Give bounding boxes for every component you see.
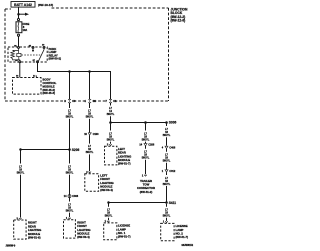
- wire label L7 18 BK/YL: [86, 110, 94, 119]
- license lamp no.1 dashed box: [104, 223, 117, 240]
- body control module dashed box: [13, 78, 42, 95]
- battery feed callout box BATT A142: [11, 2, 35, 8]
- wire label L7 18 BK/YL: [163, 209, 171, 218]
- svg-text:J988W-9: J988W-9: [6, 244, 16, 247]
- relay coil: [11, 48, 20, 60]
- junction block dashed outline: [5, 8, 169, 101]
- junction block label: [171, 8, 188, 23]
- svg-text:BK/YL: BK/YL: [66, 171, 74, 174]
- wire: [89, 154, 91, 171]
- BCM pin stub: [36, 75, 38, 77]
- wire label L7 18 BK/YL: [66, 110, 74, 119]
- wire A below JB: [69, 103, 71, 108]
- svg-text:(8W-10-15): (8W-10-15): [38, 3, 53, 7]
- connector C2 at junction block: [89, 99, 92, 103]
- wire: [69, 119, 71, 149]
- wire label L7 18 BK/YL: [142, 151, 150, 160]
- svg-text:S306: S306: [169, 121, 177, 125]
- wire: [110, 116, 112, 122]
- park lamp relay dashed box: [8, 47, 47, 62]
- svg-text:(8W-45-3): (8W-45-3): [43, 91, 56, 95]
- svg-text:BK/YL: BK/YL: [86, 151, 94, 154]
- svg-text:C208: C208: [148, 144, 154, 147]
- wire label L7 18 BK/YL: [66, 165, 74, 174]
- wire B drop from bus: [89, 72, 91, 100]
- svg-text:BK/YL: BK/YL: [107, 113, 115, 116]
- svg-text:(8W-12-8): (8W-12-8): [171, 18, 186, 22]
- wire: [89, 135, 91, 143]
- connector C6 at junction block: [68, 99, 71, 103]
- wire right branch to license lamps: [166, 124, 168, 126]
- relay terminals: [18, 46, 20, 48]
- wire A continues to right front module: [69, 151, 71, 164]
- svg-text:BK/YL: BK/YL: [107, 138, 115, 141]
- svg-text:BK/YL: BK/YL: [163, 160, 171, 163]
- svg-text:C100: C100: [93, 133, 99, 136]
- svg-text:(8W-50-2): (8W-50-2): [49, 57, 62, 61]
- svg-text:BK/YL: BK/YL: [142, 157, 150, 160]
- relay armature link (dashed): [21, 54, 40, 56]
- wire: [166, 137, 168, 146]
- wire: [20, 175, 22, 218]
- wire label L7 18 BK/YL: [105, 209, 113, 218]
- wire to license lamp no.1: [108, 203, 110, 207]
- svg-text:BK/YL: BK/YL: [17, 171, 25, 174]
- svg-text:C408: C408: [169, 146, 175, 149]
- in-line connector C408: [165, 146, 168, 148]
- wire label L7 18 BK/YL: [163, 128, 171, 137]
- wire: [89, 103, 91, 108]
- wire: [69, 213, 71, 218]
- wire: [110, 142, 112, 144]
- wire C below C1: [110, 103, 112, 106]
- node splice on bus B: [88, 70, 91, 73]
- fuse F8 10A: [16, 19, 30, 37]
- relay label: [49, 47, 62, 61]
- wire: [166, 172, 168, 175]
- wire A drop from bus: [69, 72, 71, 100]
- wire to trailer tow connector: [145, 124, 147, 131]
- relay switch: [39, 48, 44, 61]
- wire: [108, 218, 110, 221]
- license lamp no.2 dashed box: [161, 223, 174, 240]
- splice S306: [109, 121, 112, 124]
- svg-text:C312: C312: [169, 170, 175, 173]
- in-line connector C312: [165, 170, 168, 172]
- svg-text:(8W-51-7): (8W-51-7): [118, 162, 131, 166]
- svg-text:BK/YL: BK/YL: [66, 209, 74, 212]
- node splice dot on feed: [17, 13, 20, 16]
- left rear lighting module dashed box: [105, 146, 117, 165]
- svg-text:(8W-51-7): (8W-51-7): [176, 235, 189, 239]
- BCM pin labels: [16, 75, 36, 78]
- svg-text:96JW8152: 96JW8152: [182, 244, 194, 247]
- svg-text:BK/YL: BK/YL: [163, 183, 171, 186]
- right rear lighting module dashed box: [14, 220, 26, 239]
- wire label L7 18 BK/YL: [107, 132, 115, 141]
- svg-text:BK/YL: BK/YL: [66, 116, 74, 119]
- relay resistor box: [17, 53, 21, 56]
- wire: [145, 146, 147, 149]
- arrow to other circuits: [19, 13, 26, 15]
- svg-text:BATT A142: BATT A142: [14, 3, 32, 7]
- wire to license lamp no.2: [166, 204, 168, 207]
- wire label L7 18 BK/YL: [107, 107, 115, 116]
- splice S206: [68, 148, 71, 151]
- wire: [145, 142, 147, 144]
- wire label L7 18 BK/YL: [66, 203, 74, 212]
- wire label L7 18 BK/YL: [163, 154, 171, 163]
- in-line connector C208: [144, 144, 147, 146]
- svg-text:BK/YL: BK/YL: [163, 134, 171, 137]
- right front lighting module dashed box: [64, 220, 76, 238]
- in-line connector C308: [68, 195, 71, 198]
- wire: [89, 119, 91, 133]
- svg-text:10A: 10A: [23, 29, 28, 32]
- BCM label: [43, 78, 57, 96]
- svg-text:S411: S411: [169, 201, 176, 205]
- wire to left rear lighting module: [110, 124, 112, 131]
- svg-text:(8W-50-4): (8W-50-4): [100, 188, 113, 192]
- svg-text:BK/YL: BK/YL: [105, 215, 113, 218]
- wire label L7 18 BK/YL: [163, 177, 171, 186]
- wire label L7 18 BK/YL: [17, 165, 25, 174]
- relay coil node: [32, 48, 34, 50]
- wire to right rear lighting module: [20, 150, 22, 164]
- node splice on bus A: [68, 70, 71, 73]
- svg-text:(8W-50-4): (8W-50-4): [77, 235, 90, 239]
- relay pin labels top: [14, 44, 45, 62]
- wire: [166, 163, 168, 170]
- left front lighting module dashed box: [85, 174, 99, 192]
- connector C1 at junction block: [109, 99, 112, 103]
- svg-text:S206: S206: [72, 148, 80, 152]
- wire relay 87 output bus: [38, 63, 111, 99]
- splice S411: [165, 201, 168, 204]
- wire: [69, 175, 71, 195]
- svg-text:(8W-51-7): (8W-51-7): [118, 235, 131, 239]
- wire: [166, 218, 168, 221]
- svg-text:BK/YL: BK/YL: [86, 116, 94, 119]
- wire fuse to relay: [18, 36, 20, 46]
- wire: [145, 160, 147, 175]
- wire: [166, 186, 168, 203]
- in-line connector C100: [88, 133, 91, 135]
- wire: [166, 149, 168, 152]
- trailer tow connector label: [137, 179, 155, 194]
- svg-text:C308: C308: [72, 195, 78, 198]
- svg-text:(8W-51-2): (8W-51-2): [140, 190, 153, 194]
- svg-text:BK/YL: BK/YL: [142, 138, 150, 141]
- wire relay coil to BCM: [19, 63, 21, 78]
- wire: [69, 198, 71, 202]
- svg-text:BK/YL: BK/YL: [163, 215, 171, 218]
- wire label L7 18 BK/YL: [86, 145, 94, 154]
- svg-text:(8W-51-6): (8W-51-6): [28, 236, 41, 240]
- wire label L7 18 BK/YL: [142, 132, 150, 141]
- wire batt to fuse: [18, 7, 20, 19]
